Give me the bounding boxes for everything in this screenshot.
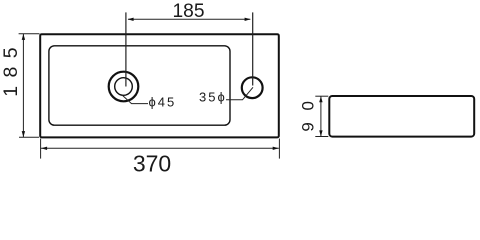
bottom dim left arrow	[41, 147, 47, 150]
sink outer rim (top view)	[40, 34, 279, 137]
side view outline	[329, 96, 474, 137]
faucet hole circle	[242, 77, 263, 98]
svg-text:35ϕ: 35ϕ	[199, 89, 227, 104]
svg-text:185: 185	[172, 1, 204, 22]
bottom dim right extension line	[278, 139, 280, 159]
bottom dim right arrow	[273, 147, 279, 150]
centerline / extension through drain hole	[125, 12, 127, 86]
left dim up arrow	[22, 34, 25, 40]
centerline / extension through faucet hole	[252, 12, 254, 85]
svg-text:ϕ45: ϕ45	[149, 95, 177, 110]
svg-text:1 8 5: 1 8 5	[0, 46, 22, 97]
side dim down arrow	[319, 130, 322, 136]
side dim top extension line	[315, 95, 328, 97]
top dim left arrow	[128, 18, 134, 21]
top dimension line 185	[128, 18, 250, 20]
left dimension line 185	[22, 34, 24, 137]
side dimension line 90	[320, 96, 322, 136]
svg-text:370: 370	[133, 151, 171, 177]
left dim bottom extension line	[19, 136, 39, 138]
leader line for faucet hole label	[226, 87, 253, 100]
leader line for drain label	[122, 95, 149, 104]
svg-text:9 0: 9 0	[299, 98, 318, 132]
side dim bottom extension line	[315, 136, 328, 138]
bottom dimension line 370	[41, 147, 279, 149]
left dim top extension line	[19, 33, 40, 35]
drain hole outer circle	[109, 72, 139, 102]
top dim right arrow	[245, 18, 251, 21]
drain hole inner circle	[115, 78, 133, 96]
left dim down arrow	[22, 131, 25, 137]
side dim up arrow	[319, 96, 322, 102]
bottom dim left extension line	[40, 139, 42, 159]
basin inner outline	[49, 46, 230, 125]
